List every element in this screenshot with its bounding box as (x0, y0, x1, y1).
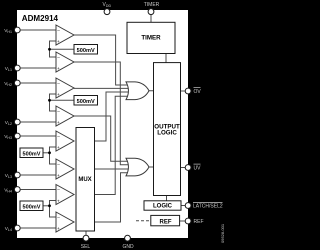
wire comparator U3 output to OR gate G1 input 2 (74, 87, 129, 89)
reference 500mV channel 4 (20, 201, 43, 211)
REF block (151, 215, 180, 225)
pin VH2 (14, 80, 20, 86)
svg-text:REF: REF (194, 219, 204, 225)
svg-text:500mV: 500mV (77, 48, 95, 54)
wire OUTPUT LOGIC to LOGIC block (166, 196, 168, 201)
junction channel 3 (48, 151, 51, 154)
wire reference tree channel 2 (50, 94, 75, 111)
wire MUX output C to OR gate G2 input 3 (95, 168, 129, 170)
wire reference tree channel 4 (43, 201, 56, 218)
svg-text:TIMER: TIMER (144, 2, 160, 8)
wire VH1 to comparator U1 (21, 29, 56, 31)
pin TIMER (148, 9, 154, 15)
svg-text:–: – (57, 109, 60, 114)
IC body ADM2914 (17, 10, 188, 238)
wire dashed to REF block (136, 220, 152, 222)
TIMER block (127, 22, 175, 53)
svg-text:+: + (57, 39, 60, 44)
pin VDD (104, 9, 110, 15)
wire OUTPUT LOGIC to UV pin (181, 167, 186, 169)
pin OV (185, 88, 191, 94)
LOGIC block (144, 201, 181, 210)
pin VH1 (14, 27, 20, 33)
svg-text:500mV: 500mV (22, 152, 40, 158)
label SEL (81, 244, 91, 250)
wire VH3 to comparator U5 (21, 135, 56, 137)
wire VL4 to comparator U8 (21, 227, 56, 229)
comparator U2 (56, 52, 74, 72)
svg-text:–: – (57, 162, 60, 167)
wire OR gate G1 to OUTPUT LOGIC (149, 90, 154, 92)
pin LATCH/SEL2 (185, 203, 191, 209)
comparator U4 (56, 106, 74, 126)
pin GND (125, 235, 131, 241)
comparator U7 (56, 185, 74, 205)
wire VL1 to comparator U2 (21, 67, 56, 69)
svg-text:–: – (57, 187, 60, 192)
comparator U1 (56, 25, 74, 45)
pin VH3 (14, 133, 20, 139)
wire comparator U1 output to OR gate G1 input 1 (74, 35, 129, 85)
pin VL2 (14, 119, 20, 125)
wire OUTPUT LOGIC to OV pin (181, 90, 186, 92)
wire LOGIC block to LATCH pin (181, 205, 185, 207)
svg-text:–: – (57, 55, 60, 60)
pin REF (185, 218, 191, 224)
pin VL3 (14, 172, 20, 178)
OR gate G1 (126, 82, 149, 100)
svg-text:+: + (57, 120, 60, 125)
junction channel 2 (48, 99, 51, 102)
comparator U6 (56, 159, 74, 179)
junction channel 4 (48, 204, 51, 207)
svg-text:09528-001: 09528-001 (220, 223, 225, 243)
pin SEL (83, 235, 89, 241)
OUTPUT LOGIC block (154, 63, 181, 196)
pin VH4 (14, 187, 20, 193)
pin VL1 (14, 65, 20, 71)
pin UV (185, 165, 191, 171)
pin VL4 (14, 225, 20, 231)
wire MUX to SEL pin (85, 231, 87, 235)
svg-text:UV: UV (194, 166, 202, 172)
svg-text:–: – (57, 215, 60, 220)
svg-text:ADM2914: ADM2914 (22, 14, 59, 23)
OR gate G2 (126, 158, 149, 176)
MUX block (76, 128, 95, 232)
svg-text:–: – (57, 28, 60, 33)
reference 500mV channel 3 (20, 148, 43, 158)
wire MUX output B to OR gate G1 input 4 (95, 96, 129, 194)
svg-text:TIMER: TIMER (141, 35, 161, 42)
svg-text:–: – (57, 81, 60, 86)
label LATCH/SEL2 (193, 202, 223, 209)
wire reference tree channel 1 (50, 41, 75, 57)
reference 500mV channel 2 (74, 96, 98, 106)
svg-text:MUX: MUX (78, 177, 91, 183)
svg-text:REF: REF (160, 220, 172, 226)
svg-text:GND: GND (122, 244, 134, 250)
svg-text:–: – (57, 134, 60, 139)
comparator U3 (56, 78, 74, 98)
wire VH2 to comparator U3 (21, 82, 56, 84)
svg-text:+: + (57, 145, 60, 150)
wire REF block to REF pin (180, 220, 186, 222)
svg-text:+: + (57, 173, 60, 178)
svg-text:LATCH/SEL2: LATCH/SEL2 (193, 204, 223, 210)
svg-text:SEL: SEL (81, 244, 91, 250)
label UV (194, 164, 202, 171)
svg-text:LOGIC: LOGIC (153, 204, 173, 210)
wire VL3 to comparator U6 (21, 174, 56, 176)
wire reference tree channel 3 (43, 147, 56, 164)
svg-text:OV: OV (194, 89, 202, 95)
label OV (194, 88, 202, 95)
wire TIMER pin to TIMER block (150, 14, 152, 22)
reference 500mV channel 1 (74, 45, 98, 55)
wire VL2 to comparator U4 (21, 121, 56, 123)
wire VH4 to comparator U7 (21, 189, 56, 191)
svg-text:LOGIC: LOGIC (157, 129, 177, 136)
wire TIMER block to OUTPUT LOGIC (165, 54, 167, 63)
wire comparator U4 output to OR gate G2 input 1 (74, 116, 129, 161)
junction channel 1 (48, 48, 51, 51)
comparator U5 (56, 131, 74, 151)
wire MUX output D to OR gate G2 input 4 (95, 173, 129, 222)
wire comparator U2 output to OR gate G2 input 2 (74, 62, 129, 165)
comparator U8 (56, 212, 74, 232)
svg-text:+: + (57, 66, 60, 71)
svg-text:500mV: 500mV (22, 205, 40, 211)
wire MUX output A to OR gate G1 input 3 (95, 92, 129, 141)
wire OR gate G2 to OUTPUT LOGIC (149, 166, 154, 168)
svg-text:+: + (57, 92, 60, 97)
svg-text:+: + (57, 199, 60, 204)
svg-text:500mV: 500mV (77, 99, 95, 105)
svg-text:+: + (57, 226, 60, 231)
